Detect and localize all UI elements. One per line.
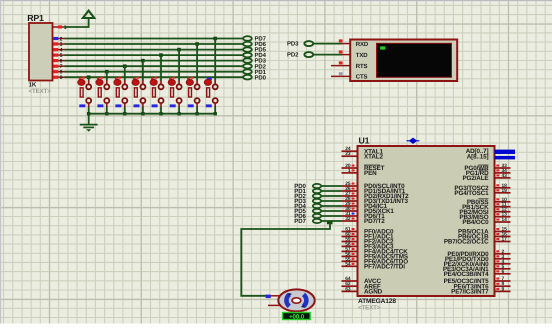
svg-text:8: 8	[502, 281, 505, 287]
svg-text:PD7: PD7	[294, 218, 306, 225]
U1 bus A[8..15]	[467, 153, 515, 160]
U1 pin 62 AREF	[342, 281, 381, 290]
motor pins	[268, 296, 281, 306]
virtual terminal pin CTS	[331, 72, 368, 81]
U1 pin 4 PE2/XCK0/AIN0	[444, 259, 511, 268]
terminal PD2	[243, 63, 266, 70]
U1 pin 43 PG2/ALE	[462, 173, 510, 182]
svg-text:<TEXT>: <TEXT>	[358, 305, 381, 312]
U1 pin 2 PE0/PDI/RXD0	[447, 249, 510, 258]
U1 pin 61 PF0/ADC0	[342, 227, 395, 236]
svg-text:9: 9	[60, 75, 63, 81]
U1 pin 33 PG0/WR	[464, 163, 510, 172]
wire PD0	[65, 76, 244, 78]
terminal PD5	[243, 47, 266, 54]
svg-text:14: 14	[502, 217, 508, 223]
terminal PD5 (to U1)	[294, 208, 341, 215]
button 2 (key PD1)	[96, 70, 109, 116]
svg-text:1: 1	[348, 168, 351, 174]
svg-text:RXD: RXD	[356, 41, 369, 48]
svg-text:19: 19	[502, 188, 508, 194]
button 6 (key PD5)	[168, 48, 181, 116]
U1 pin 5 PE3/OC3A/AIN1	[443, 264, 511, 273]
power VCC arrow	[65, 11, 95, 27]
RP1 pin 9	[53, 75, 65, 81]
wire PD4	[65, 54, 244, 56]
terminal PD2 (to virtual terminal)	[287, 52, 342, 59]
svg-text:TXD: TXD	[356, 52, 368, 59]
svg-text:PD3: PD3	[287, 41, 299, 48]
svg-text:RP1: RP1	[27, 13, 44, 23]
terminal PD0	[243, 74, 266, 81]
U1 pin 55 PF6/ADC6/TDO	[342, 256, 409, 265]
U1 bus AD[0..7]	[466, 148, 515, 155]
svg-text:XTAL2: XTAL2	[364, 153, 383, 160]
motor M1	[278, 289, 314, 311]
U1 pin 54 PF7/ADC7/TDI	[342, 261, 406, 270]
wire PD2	[65, 65, 244, 67]
wire PD5	[65, 49, 244, 51]
U1 pin 12 PB2/MOSI	[459, 207, 510, 216]
svg-text:PD0: PD0	[255, 74, 267, 81]
svg-text:PG2/ALE: PG2/ALE	[462, 175, 488, 182]
origin marker	[407, 138, 420, 143]
RP1 pin 7	[53, 64, 65, 70]
wire PD7	[65, 38, 244, 40]
U1 pin 30 PD5/XCK1	[342, 206, 395, 215]
motor pin indicator	[266, 295, 271, 299]
U1 pin 64 AVCC	[342, 276, 382, 285]
terminal PD2 (to U1)	[294, 193, 341, 200]
svg-text:17: 17	[502, 237, 508, 243]
virtual terminal pin RTS	[331, 61, 368, 70]
button 4 (key PD3)	[132, 59, 145, 116]
svg-text:23: 23	[345, 151, 351, 157]
U1 pin 31 PD6/T1	[342, 211, 386, 220]
virtual terminal pin RXD	[339, 39, 369, 48]
svg-text:13: 13	[502, 212, 508, 218]
svg-text:PB4/OC0: PB4/OC0	[462, 219, 489, 226]
RP1 pin 1	[53, 25, 67, 31]
U1 pin 17 PB7/OC2/OC1C	[444, 237, 511, 246]
svg-text:32: 32	[345, 216, 351, 222]
terminal PD6	[243, 41, 266, 48]
wire PD7 to motor	[241, 223, 330, 296]
svg-text:63: 63	[345, 286, 351, 292]
terminal PD3 (to U1)	[294, 198, 341, 205]
ground	[80, 114, 98, 128]
svg-text:<TEXT>: <TEXT>	[29, 88, 52, 95]
U1 pin 59 PF2/ADC2	[342, 237, 395, 246]
RP1 pin 3	[53, 42, 65, 48]
svg-text:7: 7	[502, 276, 505, 282]
U1 pin 18 PG3/TOSC2	[454, 183, 510, 192]
wire PD1	[65, 71, 244, 73]
button 7 (key PD6)	[186, 42, 199, 115]
U1 pin 1 PEN	[342, 168, 378, 177]
virtual terminal VT1 body	[350, 40, 457, 82]
svg-text:PE4/OC3B/INT4: PE4/OC3B/INT4	[444, 271, 490, 278]
motor rpm display	[283, 313, 311, 321]
U1 pin 25 PD0/SCL/INT0	[342, 181, 406, 190]
RP1 pin 6	[53, 59, 65, 65]
svg-text:PG4/TOSC1: PG4/TOSC1	[454, 190, 489, 197]
terminal PD4 (to U1)	[294, 203, 341, 210]
svg-text:PB7/OC2/OC1C: PB7/OC2/OC1C	[444, 239, 489, 246]
U1 pin 29 PD4/IC1	[342, 201, 388, 210]
svg-text:PF7/ADC7/TDI: PF7/ADC7/TDI	[364, 263, 405, 270]
svg-text:43: 43	[502, 173, 508, 179]
button 5 (key PD4)	[150, 53, 163, 115]
resistor pack RP1	[27, 13, 52, 95]
U1 pin 63 AGND	[342, 286, 383, 295]
U1 pin 60 PF1/ADC1	[342, 232, 395, 241]
svg-text:62: 62	[345, 281, 351, 287]
terminal PD7 (to U1)	[294, 218, 341, 225]
U1 pin 27 PD2/RXD1/INT2	[342, 191, 410, 200]
RP1 pin 5	[53, 53, 65, 59]
terminal PD6 (to U1)	[294, 213, 341, 220]
svg-text:PD7/T2: PD7/T2	[364, 218, 385, 225]
terminal PD3	[243, 58, 266, 65]
U1 pin 11 PB1/SCK	[462, 202, 510, 211]
svg-text:PD2: PD2	[287, 52, 299, 59]
U1 pin 6 PE4/OC3B/INT4	[444, 269, 511, 278]
wire PD3	[65, 60, 244, 62]
U1 pin 19 PG4/TOSC1	[454, 188, 510, 197]
terminal PD1 (to U1)	[294, 188, 341, 195]
U1 pin 15 PB5/OC1A	[458, 227, 511, 236]
U1 pin 56 PF5/ADC5/TMS	[342, 251, 408, 260]
U1 pin 57 PF4/ADC4/TCK	[342, 246, 409, 255]
button 1 (key PD0)	[78, 75, 91, 115]
U1 pin 14 PB4/OC0	[462, 217, 510, 226]
svg-text:A[8..15]: A[8..15]	[467, 153, 489, 160]
svg-text:PEN: PEN	[364, 170, 377, 177]
U1 pin 34 PG1/RD	[466, 168, 511, 177]
button 3 (key PD2)	[114, 64, 127, 115]
node PD7 junction	[327, 221, 333, 224]
wire PD6	[65, 43, 244, 45]
U1 pin 20 RESET	[342, 163, 385, 172]
terminal PD1	[243, 69, 266, 76]
RP1 pin 4	[53, 48, 65, 54]
svg-text:AGND: AGND	[364, 289, 383, 296]
svg-text:64: 64	[345, 276, 351, 282]
U1 pin 3 PE1/PDO/TXD0	[445, 254, 511, 263]
svg-text:6: 6	[502, 269, 505, 275]
virtual terminal pin TXD	[339, 50, 368, 59]
RP1 pin 2	[53, 36, 65, 42]
terminal PD7	[243, 36, 266, 43]
svg-text:9: 9	[502, 286, 505, 292]
U1 pin 16 PB6/OC1B	[458, 232, 511, 241]
U1 pin 28 PD3/TXD1/INT3	[342, 196, 409, 205]
U1 pin 23 XTAL2	[342, 151, 384, 160]
U1 pin 24 XTAL1	[342, 146, 384, 155]
U1 pin 13 PB3/MISO	[459, 212, 510, 221]
svg-text:PE7/IC3/INT7: PE7/IC3/INT7	[451, 289, 489, 296]
terminal PD3 (to virtual terminal)	[287, 41, 342, 48]
virtual terminal screen	[377, 43, 452, 77]
U1 pin 7 PE5/OC3C/INT5	[444, 276, 511, 285]
U1 pin 9 PE7/IC3/INT7	[451, 286, 510, 295]
U1 pin 58 PF3/ADC3	[342, 241, 395, 250]
svg-text:+00.0: +00.0	[289, 314, 305, 321]
U1 pin 26 PD1/SDA/INT1	[342, 186, 406, 195]
U1 pin 32 PD7/T2	[342, 216, 386, 225]
terminal PD4	[243, 52, 266, 59]
button 8 (key PD7)	[204, 37, 217, 116]
RP1 pin 8	[53, 70, 65, 76]
svg-text:RTS: RTS	[356, 63, 368, 70]
mcu U1 ATMEGA128 body	[358, 135, 495, 311]
U1 pin 10 PB0/SS	[467, 197, 511, 206]
svg-text:CTS: CTS	[356, 74, 368, 81]
wire ground rail	[89, 113, 216, 115]
svg-text:54: 54	[345, 261, 351, 267]
U1 pin 8 PE6/T3/INT6	[453, 281, 510, 290]
svg-text:U1: U1	[359, 135, 370, 145]
terminal PD0 (to U1)	[294, 183, 341, 190]
